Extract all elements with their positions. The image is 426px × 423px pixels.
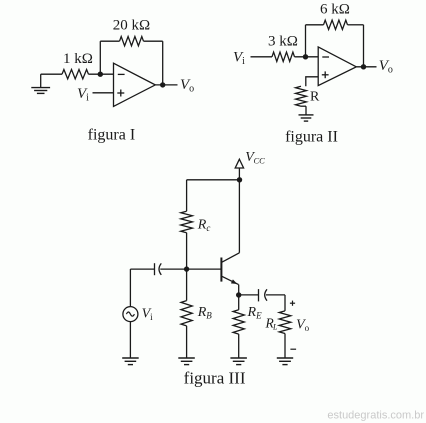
resistor 1 kOhm (figure I) xyxy=(62,70,89,79)
wire Rc to base node xyxy=(186,233,188,269)
wire feedback right vertical xyxy=(162,41,164,85)
node (inverting input junction, figure I) xyxy=(98,72,103,77)
wire R to ground (figure II) xyxy=(301,105,306,107)
wire feedback right vertical (figure II) xyxy=(363,25,365,67)
wire source to ground xyxy=(129,322,131,358)
svg-text:figura III: figura III xyxy=(184,369,246,388)
op-amp U2 (figure II) xyxy=(318,47,356,86)
wire Vcc stem xyxy=(238,168,240,180)
svg-text:Vi: Vi xyxy=(142,307,154,323)
wire feedback left vertical (figure II) xyxy=(305,25,307,57)
svg-text:3 kΩ: 3 kΩ xyxy=(268,34,298,50)
node base junction xyxy=(184,266,189,271)
wire collector to rail xyxy=(238,180,240,253)
wire cap to RL xyxy=(284,295,286,311)
capacitor (input coupling, figure III) xyxy=(155,263,187,275)
ground (under RL) xyxy=(277,357,293,359)
svg-text:RE: RE xyxy=(247,305,263,321)
svg-text:6 kΩ: 6 kΩ xyxy=(320,2,350,18)
label plus (Vo polarity) xyxy=(290,301,295,306)
svg-text:estudegratis.com.br: estudegratis.com.br xyxy=(327,410,424,422)
wire Re to ground xyxy=(238,334,240,358)
op-amp U1 (figure I) xyxy=(114,63,156,106)
ground (figure II) xyxy=(299,114,314,116)
svg-text:figura I: figura I xyxy=(88,127,136,144)
transistor Q1 (figure III) xyxy=(221,253,239,285)
ground (figure I input) xyxy=(31,74,50,93)
node emitter junction xyxy=(236,292,241,297)
capacitor (emitter coupling, figure III) xyxy=(239,289,285,301)
node output (figure II) xyxy=(361,64,366,69)
wire Rb to ground xyxy=(186,326,188,358)
svg-text:figura II: figura II xyxy=(285,129,338,146)
wire feedback left vertical xyxy=(99,41,101,74)
node inverting input (figure II) xyxy=(303,54,308,59)
svg-text:R: R xyxy=(310,90,320,105)
Vcc symbol (open triangle) xyxy=(235,159,243,168)
wire ground to R1 xyxy=(41,73,62,75)
svg-text:Vi: Vi xyxy=(77,86,89,104)
resistor 20 kOhm (figure I feedback) xyxy=(120,37,144,46)
svg-text:Vo: Vo xyxy=(180,77,194,95)
wire rail to Rc xyxy=(186,180,188,211)
node Vcc rail xyxy=(237,177,242,182)
AC source Vi (figure III) xyxy=(123,307,138,322)
wire top rail xyxy=(187,179,240,181)
resistor Rb (figure III) xyxy=(186,269,188,301)
svg-text:Vo: Vo xyxy=(296,318,310,334)
resistor R (figure II) xyxy=(296,86,307,106)
wire Vi to non-inverting input xyxy=(93,92,114,94)
svg-text:Vo: Vo xyxy=(379,58,393,76)
wire R1 to inverting input xyxy=(89,73,114,75)
wire base node to transistor base xyxy=(187,268,221,270)
wire feedback top left xyxy=(100,40,119,42)
wire feedback top right (figure II) xyxy=(348,24,364,26)
svg-text:20 kΩ: 20 kΩ xyxy=(113,18,150,34)
wire non-inverting input to R (figure II) xyxy=(306,77,318,87)
wire Vi to R 3k xyxy=(251,56,273,58)
resistor 3 kOhm (figure II input) xyxy=(272,52,295,61)
svg-text:RL: RL xyxy=(265,316,279,332)
node base wire / input cap junction: wire Vi up xyxy=(130,268,154,270)
wire output (figure II) xyxy=(356,66,376,68)
ground (under Rb) xyxy=(178,357,195,359)
wire R 3k to inverting input xyxy=(295,56,319,58)
node output (figure I) xyxy=(160,82,165,87)
label minus (Vo polarity) xyxy=(290,348,296,350)
resistor RL (figure III) xyxy=(279,311,291,334)
ground (under source) xyxy=(122,357,139,359)
wire RL to ground xyxy=(284,334,286,358)
resistor Re (figure III) xyxy=(238,295,240,310)
resistor Rc (figure III) xyxy=(181,211,193,233)
resistor 6 kOhm (figure II feedback) xyxy=(324,20,348,29)
svg-text:VCC: VCC xyxy=(245,150,265,165)
wire feedback top right xyxy=(144,40,163,42)
svg-text:Rc: Rc xyxy=(197,218,211,234)
wire emitter down xyxy=(238,285,240,295)
svg-text:Vi: Vi xyxy=(233,50,245,68)
svg-text:RB: RB xyxy=(197,305,213,321)
svg-text:1 kΩ: 1 kΩ xyxy=(63,51,93,67)
wire output (figure I) xyxy=(155,84,177,86)
wire Vi source up xyxy=(129,269,131,307)
ground (under Re) xyxy=(230,357,247,359)
wire feedback top left (figure II) xyxy=(306,24,324,26)
